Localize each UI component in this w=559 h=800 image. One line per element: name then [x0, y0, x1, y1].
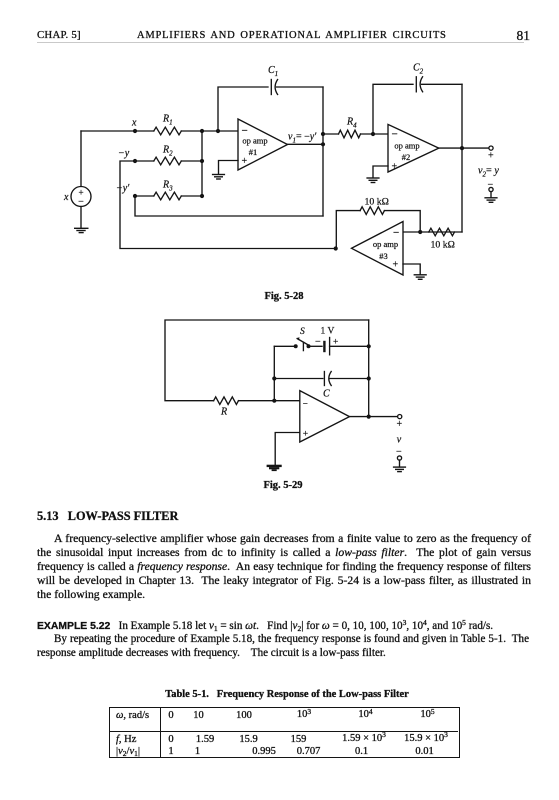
wire -y' feedback loop — [135, 196, 323, 216]
wire -y' row — [135, 195, 154, 197]
svg-text:v2= y: v2= y — [478, 166, 499, 179]
wire op1 + input — [219, 161, 239, 175]
wire op output — [350, 416, 398, 418]
svg-text:R4: R4 — [346, 117, 357, 130]
table col divider — [160, 707, 161, 758]
wire output right vertical — [368, 320, 370, 417]
wire C1 branch up — [218, 87, 268, 131]
svg-text:+: + — [333, 338, 338, 348]
svg-text:1 V: 1 V — [321, 327, 335, 337]
svg-text:10 kΩ: 10 kΩ — [365, 197, 389, 208]
wire op3 + input — [403, 264, 420, 275]
op-amp U4 — [300, 391, 350, 442]
svg-text:#1: #1 — [249, 147, 258, 157]
head rule — [37, 42, 524, 43]
junction bus/-y row — [200, 159, 204, 163]
wire feedback left leg — [336, 211, 360, 249]
resistor R1 — [154, 127, 182, 135]
svg-text:+: + — [392, 162, 398, 173]
wire op2 + input — [373, 166, 388, 178]
svg-text:−: − — [393, 227, 399, 239]
wire outer feedback loop — [165, 320, 369, 401]
wire C row — [274, 378, 323, 380]
wire R4 to op2 — [361, 133, 389, 135]
svg-text:op amp: op amp — [242, 136, 267, 146]
svg-text:+: + — [242, 156, 248, 167]
capacitor C — [324, 372, 368, 386]
svg-text:C1: C1 — [268, 65, 278, 78]
node op3 output — [334, 246, 338, 250]
ground (op2 +) — [367, 178, 379, 183]
wire -y feedback loop — [120, 161, 336, 249]
caption Fig. 5-28 — [264, 291, 303, 302]
wire switch row — [274, 345, 295, 347]
node C2 branch — [371, 132, 375, 136]
resistor R3 — [154, 192, 182, 200]
node C right — [367, 376, 371, 380]
wire x row — [81, 130, 154, 132]
wire to op3 - input — [403, 231, 429, 233]
table 5-1 — [109, 707, 460, 758]
wire R to op-amp — [239, 400, 300, 402]
resistor R2 — [154, 157, 182, 165]
svg-text:R3: R3 — [162, 180, 173, 193]
node x — [133, 129, 137, 133]
node v1/R4 — [321, 132, 325, 136]
wire C2 branch up — [373, 84, 413, 134]
svg-text:#2: #2 — [402, 152, 411, 162]
ground (op3 +) — [414, 275, 426, 280]
node output — [367, 415, 371, 419]
svg-text:+: + — [397, 419, 403, 430]
op-amp U2 — [388, 124, 439, 172]
capacitor C2 — [416, 77, 462, 92]
table row divider — [109, 731, 458, 732]
svg-text:v: v — [397, 435, 402, 446]
node op2 output — [460, 146, 464, 150]
wire op + input — [275, 433, 300, 465]
op-amp U1 — [238, 119, 288, 170]
wire R4 lead — [323, 133, 339, 135]
node op3 - — [418, 230, 422, 234]
junction bus/x row — [200, 129, 204, 133]
wire op2 output — [439, 147, 489, 149]
switch S — [294, 337, 311, 350]
svg-text:−: − — [392, 129, 398, 141]
node inverting input — [272, 399, 276, 403]
wire R2 to bus — [181, 160, 202, 162]
body paragraph — [37, 532, 531, 602]
svg-text:−: − — [315, 337, 321, 348]
battery 1V — [324, 338, 368, 355]
svg-text:R1: R1 — [162, 114, 173, 127]
junction bus/-y' row — [200, 194, 204, 198]
node battery right — [367, 344, 371, 348]
svg-text:−y: −y — [118, 148, 130, 159]
example 5.22 — [37, 620, 529, 661]
source Vx — [71, 131, 91, 228]
caption Fig. 5-29 — [263, 480, 302, 491]
wire 10k series lead — [429, 231, 462, 233]
wire input branch vertical — [273, 346, 275, 400]
svg-text:−: − — [303, 399, 308, 409]
table row 3 — [116, 746, 140, 757]
svg-text:op amp: op amp — [394, 141, 419, 151]
wire switch to battery — [308, 345, 322, 347]
svg-text:x: x — [131, 118, 137, 129]
capacitor C1 — [271, 80, 323, 95]
node C1 branch — [216, 129, 220, 133]
summing bus wire — [201, 131, 203, 196]
ground (below source) — [75, 228, 88, 232]
resistor R — [214, 397, 239, 405]
wire R1 to op-amp — [181, 130, 238, 132]
wire op1 output — [288, 143, 324, 145]
wire v1 vertical (C1 right / down to -y' loop) — [322, 87, 324, 216]
running head — [37, 29, 81, 41]
svg-text:C2: C2 — [413, 63, 424, 76]
ground (output) — [394, 460, 406, 472]
ground (output) — [485, 192, 497, 203]
svg-text:10 kΩ: 10 kΩ — [431, 240, 455, 251]
svg-text:C: C — [323, 389, 330, 400]
svg-text:+: + — [488, 151, 494, 162]
ground (op + input, solid) — [268, 466, 281, 470]
resistor 10k series — [429, 228, 455, 236]
svg-text:S: S — [300, 327, 305, 337]
op-amp U3 (points left) — [352, 222, 404, 276]
resistor R4 — [339, 130, 361, 138]
section 5.13 heading — [37, 509, 178, 524]
output terminal + — [489, 146, 493, 150]
table row 1 — [116, 710, 149, 721]
table row 2 — [116, 734, 136, 745]
ground (op1 +) — [213, 175, 225, 180]
resistor 10k feedback — [360, 207, 384, 215]
svg-text:R2: R2 — [162, 145, 173, 158]
node -y' — [133, 194, 137, 198]
svg-text:R: R — [220, 407, 227, 418]
wire C2 right vertical / down to 10k — [461, 84, 463, 232]
svg-text:v1= −y′: v1= −y′ — [288, 132, 317, 145]
table caption — [165, 689, 409, 700]
wire 10k feedback branch — [384, 211, 420, 232]
wire R3 to bus — [181, 195, 202, 197]
node -y — [133, 159, 137, 163]
output terminal + — [398, 415, 402, 419]
svg-text:#3: #3 — [379, 251, 388, 261]
node C branch — [272, 376, 276, 380]
svg-text:−y′: −y′ — [116, 183, 130, 194]
svg-text:x: x — [63, 192, 69, 203]
svg-text:op amp: op amp — [373, 239, 398, 249]
svg-text:+: + — [303, 430, 308, 440]
wire -y row — [135, 160, 154, 162]
svg-text:+: + — [393, 260, 399, 271]
